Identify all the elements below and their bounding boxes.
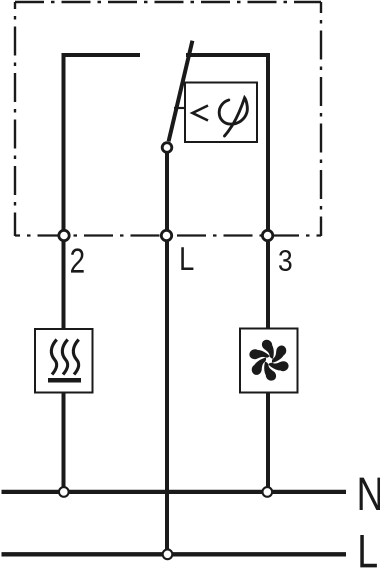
wire: switch pivot down to terminal L bbox=[165, 152, 169, 236]
heater symbol: surface bar bbox=[48, 378, 81, 383]
terminal 3 circle bbox=[262, 230, 272, 240]
wire: heater down to line N bbox=[62, 393, 66, 493]
terminal L circle bbox=[161, 230, 171, 240]
wire: terminal L down to line L bbox=[165, 236, 169, 555]
enclosure dash-dot bottom border through terminals bbox=[15, 234, 321, 236]
wire: terminal 2 down to heater bbox=[62, 236, 66, 330]
label terminal L bbox=[181, 247, 193, 270]
label: phi (humidity) inside hygrostat box bbox=[219, 98, 247, 136]
fan M1 box bbox=[240, 329, 298, 393]
wire: terminal 2 riser and top horizontal to fixed contact bbox=[64, 55, 141, 236]
junction circle heater-N bbox=[59, 487, 69, 497]
junction circle L-wire on line L bbox=[163, 549, 173, 559]
junction circle fan-N bbox=[262, 487, 272, 497]
switch S1 pivot contact circle bbox=[162, 143, 172, 153]
label line N bbox=[360, 478, 380, 510]
hygrostat sensor box U1 bbox=[185, 83, 257, 143]
enclosure dash-dot boundary (top, left, right) bbox=[15, 2, 321, 236]
wire: fixed contact to terminal 3 (top right corner) bbox=[186, 55, 268, 236]
label line L bbox=[360, 535, 377, 567]
switch S1 lever bbox=[169, 41, 193, 142]
label: less-than sign inside hygrostat box bbox=[193, 106, 209, 121]
heater E1 box bbox=[35, 329, 93, 393]
mechanical linkage from lever to hygrostat box bbox=[174, 107, 185, 109]
fan symbol: six-blade pinwheel bbox=[248, 340, 291, 381]
wire: fan down to line N bbox=[266, 393, 270, 493]
label terminal 2 bbox=[71, 248, 84, 272]
label terminal 3 bbox=[279, 250, 291, 271]
terminal 2 circle bbox=[59, 230, 69, 240]
wire: terminal 3 down to fan bbox=[266, 236, 270, 329]
line L (live) bbox=[2, 552, 347, 556]
heater symbol: three heat squiggles bbox=[51, 340, 78, 375]
line N (neutral) bbox=[2, 490, 347, 494]
